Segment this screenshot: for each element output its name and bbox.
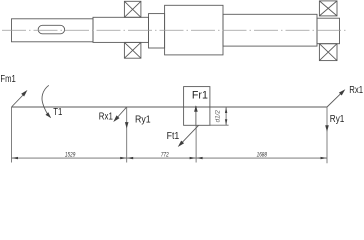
svg-text:1688: 1688	[257, 152, 268, 159]
svg-text:d1/2: d1/2	[215, 110, 222, 123]
svg-text:Fm1: Fm1	[0, 73, 15, 84]
svg-text:Fr1: Fr1	[192, 89, 208, 101]
svg-text:Rx1: Rx1	[349, 84, 363, 95]
svg-text:Ft1: Ft1	[167, 130, 180, 142]
svg-text:Rx1: Rx1	[99, 111, 113, 122]
svg-text:772: 772	[161, 152, 170, 159]
svg-text:Ry1: Ry1	[135, 113, 151, 125]
svg-text:T1: T1	[53, 106, 62, 117]
svg-text:Ry1: Ry1	[330, 113, 345, 124]
svg-text:1529: 1529	[65, 152, 76, 159]
